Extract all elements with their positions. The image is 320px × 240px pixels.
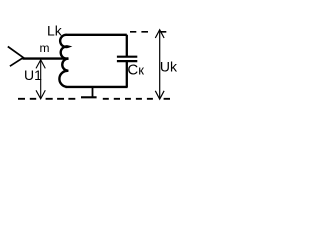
capacitor Ck lead bottom (126, 62, 128, 87)
capacitor Ck plates (117, 56, 137, 58)
inductor Lk coil (59, 35, 68, 87)
svg-text:Lk: Lk (47, 22, 63, 38)
svg-text:m: m (40, 41, 50, 55)
ground stub (92, 87, 94, 97)
wire tap m to coil (23, 57, 69, 59)
svg-text:U1: U1 (24, 67, 42, 83)
wire top (coil to capacitor) (66, 34, 127, 36)
svg-text:Uk: Uk (160, 59, 178, 75)
dashed dimension line bottom (18, 98, 170, 100)
input source arrow (8, 47, 23, 67)
dimension arrow Uk (155, 30, 164, 99)
wire bottom (coil to capacitor) (66, 86, 128, 88)
dimension arrow U1 (36, 60, 45, 99)
dashed dimension line top (130, 31, 166, 33)
ground bar (81, 96, 97, 98)
capacitor Ck lead top (126, 35, 128, 56)
svg-text:Cк: Cк (127, 62, 144, 79)
